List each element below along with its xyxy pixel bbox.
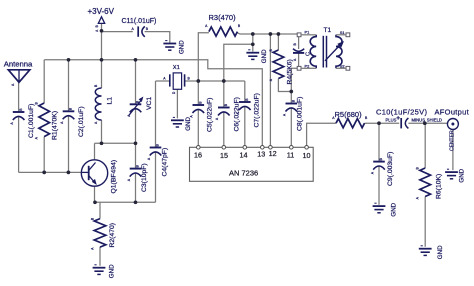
svg-text:X1: X1 bbox=[173, 65, 180, 71]
svg-text:PLUS: PLUS bbox=[386, 118, 397, 123]
svg-text:C2(.01uF): C2(.01uF) bbox=[78, 106, 85, 137]
svg-text:AN 7236: AN 7236 bbox=[229, 169, 258, 178]
svg-text:AFOutput: AFOutput bbox=[435, 107, 470, 116]
svg-text:L1: L1 bbox=[106, 97, 113, 105]
svg-text:GND: GND bbox=[109, 264, 116, 278]
svg-text:C8(.001uF): C8(.001uF) bbox=[297, 97, 304, 131]
svg-text:CENTER: CENTER bbox=[449, 130, 455, 151]
svg-text:R4(5K6): R4(5K6) bbox=[286, 59, 293, 84]
svg-text:GND: GND bbox=[185, 117, 192, 131]
svg-text:GND: GND bbox=[391, 202, 398, 216]
svg-text:SHIELD: SHIELD bbox=[427, 118, 442, 123]
svg-text:B: B bbox=[95, 25, 99, 27]
svg-text:GND: GND bbox=[437, 245, 444, 259]
svg-text:C3(10pF): C3(10pF) bbox=[141, 163, 148, 192]
svg-text:Q1(BF494): Q1(BF494) bbox=[110, 160, 117, 194]
svg-text:11: 11 bbox=[287, 150, 294, 159]
svg-text:R3(470): R3(470) bbox=[209, 13, 237, 22]
svg-text:15: 15 bbox=[220, 151, 228, 160]
svg-text:MINUS: MINUS bbox=[412, 118, 426, 123]
svg-text:GND: GND bbox=[261, 49, 268, 63]
svg-text:P1: P1 bbox=[305, 30, 311, 35]
svg-text:16: 16 bbox=[194, 150, 202, 159]
svg-text:T1: T1 bbox=[324, 27, 332, 34]
svg-text:R2(470): R2(470) bbox=[109, 223, 116, 248]
svg-text:C5(.022uF): C5(.022uF) bbox=[207, 98, 214, 132]
svg-text:GND: GND bbox=[459, 168, 466, 182]
svg-text:14: 14 bbox=[240, 150, 248, 159]
svg-text:C10(1uF/25V): C10(1uF/25V) bbox=[376, 107, 427, 116]
svg-text:Antenna: Antenna bbox=[4, 59, 33, 68]
svg-text:R1(470K): R1(470K) bbox=[52, 111, 59, 140]
svg-text:C9(.003uF): C9(.003uF) bbox=[387, 152, 394, 186]
svg-text:VC1: VC1 bbox=[146, 97, 153, 110]
svg-text:C1(.001uF): C1(.001uF) bbox=[28, 104, 35, 138]
svg-text:R5(680): R5(680) bbox=[335, 110, 363, 119]
svg-text:12: 12 bbox=[269, 149, 277, 158]
svg-text:C7(.022uF): C7(.022uF) bbox=[254, 93, 261, 127]
svg-text:GND: GND bbox=[178, 40, 185, 54]
svg-text:13: 13 bbox=[257, 150, 265, 159]
svg-text:R6(10K): R6(10K) bbox=[436, 174, 443, 199]
svg-text:C4(47pF): C4(47pF) bbox=[162, 148, 169, 177]
svg-text:10: 10 bbox=[303, 151, 311, 160]
svg-text:+3V-6V: +3V-6V bbox=[88, 7, 115, 16]
svg-text:C11(.01uF): C11(.01uF) bbox=[122, 18, 157, 25]
